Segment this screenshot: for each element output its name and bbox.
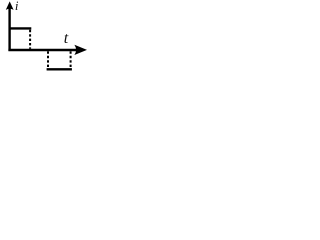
svg-text:t: t <box>64 30 69 47</box>
svg-text:i: i <box>15 0 19 13</box>
